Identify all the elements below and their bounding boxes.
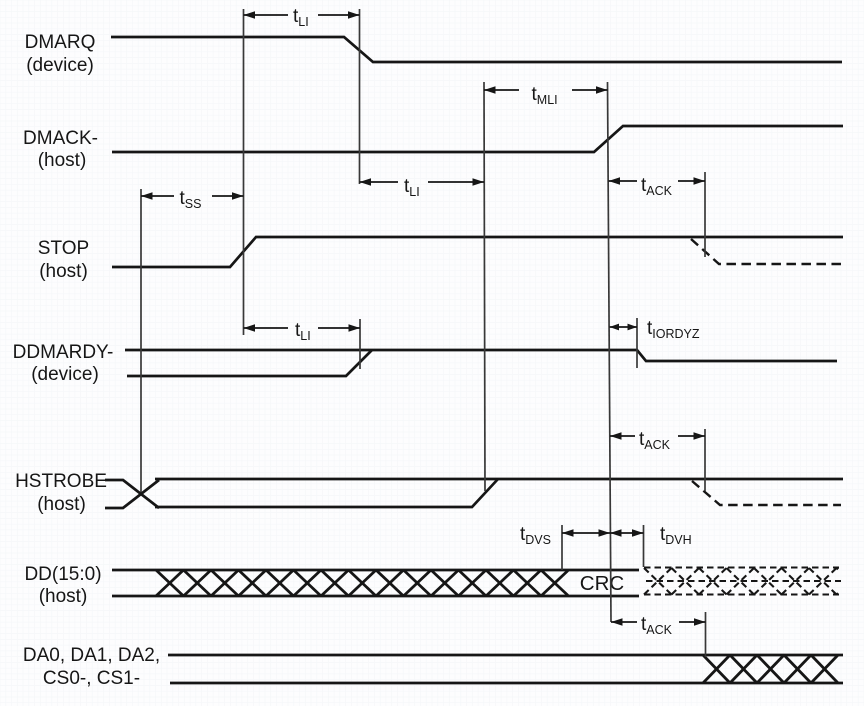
dimension tACK second (HSTROBE) (610, 429, 705, 452)
marker tick at x=705 lower (tACK end at DA bus) (705, 612, 707, 657)
bus DD(15:0) solid rails (112, 569, 639, 572)
wire HSTROBE top rail (155, 478, 843, 481)
dimension tACK third (DA bus) (611, 614, 706, 637)
dimension tMLI (DMACK) (484, 84, 608, 107)
marker tick at x=360 (DDMARDY rise) (359, 319, 361, 369)
marker vertical at x=243 (STOP rise reference) (243, 9, 245, 335)
svg-text:(device): (device) (26, 55, 94, 76)
svg-text:DA0, DA1, DA2,: DA0, DA1, DA2, (23, 645, 160, 666)
signal label HSTROBE (host) (15, 471, 107, 515)
dimension tDVH (DD bus) (610, 524, 692, 547)
signal label DDMARDY- (device) (13, 342, 114, 385)
marker tick at x=705 middle (tACK end at HSTROBE) (704, 429, 706, 491)
signal label DMARQ (device) (25, 32, 96, 76)
svg-text:(host): (host) (39, 586, 88, 607)
svg-text:CS0-, CS1-: CS0-, CS1- (43, 668, 140, 689)
svg-text:(host): (host) (37, 494, 86, 515)
marker vertical at x=359 (DMARQ fall reference) (359, 9, 361, 184)
svg-text:(device): (device) (31, 364, 99, 385)
wire HSTROBE optional release: dashed fall and dashed low (692, 481, 841, 505)
svg-text:DD(15:0): DD(15:0) (24, 564, 101, 585)
bus DD(15:0) released: dashed rails, mid line, dashed crosshatch (644, 566, 839, 568)
dimension tLI top (DMARQ) (244, 6, 360, 29)
wire DMACK-: low then rising to high (112, 126, 843, 152)
dimension tSS (STOP) (141, 188, 244, 211)
signal label DMACK- (host) (23, 128, 98, 171)
marker tick at x=643 (tDVH end) (643, 525, 645, 567)
svg-text:CRC: CRC (580, 572, 625, 595)
svg-text:DDMARDY-: DDMARDY- (13, 342, 114, 363)
signal label STOP (host) (38, 238, 89, 282)
bus DA0,DA1,DA2,CS0-,CS1- rails (168, 654, 843, 657)
marker tick at x=637 (tIORDYZ end) (636, 318, 638, 368)
wire STOP: low, rise, high rail continuing to right (112, 237, 843, 267)
dimension tACK first (DMACK high) (609, 175, 706, 198)
svg-text:HSTROBE: HSTROBE (15, 471, 107, 492)
wire DDMARDY- lower rail rising to join upper (127, 350, 372, 376)
marker vertical at x=141 (tSS start / HSTROBE X) (140, 189, 142, 492)
marker vertical at x=609 (DMACK rise reference, long) (608, 82, 612, 622)
marker tick at x=705 upper (tACK end at STOP) (704, 172, 706, 257)
wire DMARQ: high then falling to low (111, 37, 842, 62)
dimension tIORDYZ (DDMARDY release) (610, 318, 700, 341)
wire HSTROBE crossover X at start (105, 480, 159, 508)
wire DDMARDY- upper rail with release step down (125, 350, 837, 361)
signal label DA0, DA1, DA2, CS0-, CS1- (23, 645, 160, 689)
dimension tLI third (DDMARDY) (244, 320, 361, 343)
wire STOP optional negation: dashed fall and dashed low (691, 239, 841, 264)
marker vertical at x=484 (tMLI start / HSTROBE rise) (484, 82, 485, 491)
svg-text:DMACK-: DMACK- (23, 128, 98, 149)
signal label DD(15:0) (host) (24, 564, 101, 607)
marker tick at x=562 (tDVS start) (561, 525, 563, 570)
dimension tLI second (DMARQ fall to STOP rise ref) (360, 176, 485, 199)
dimension tDVS (DD bus) (520, 524, 610, 547)
svg-text:(host): (host) (38, 150, 87, 171)
wire HSTROBE bottom rail rising to top (155, 479, 498, 507)
svg-text:DMARQ: DMARQ (25, 32, 96, 53)
bus DA/CS crosshatch (address valid) (703, 655, 838, 683)
bus DD(15:0) solid crosshatch (156, 570, 568, 596)
svg-text:STOP: STOP (38, 238, 89, 259)
svg-text:(host): (host) (39, 261, 88, 282)
